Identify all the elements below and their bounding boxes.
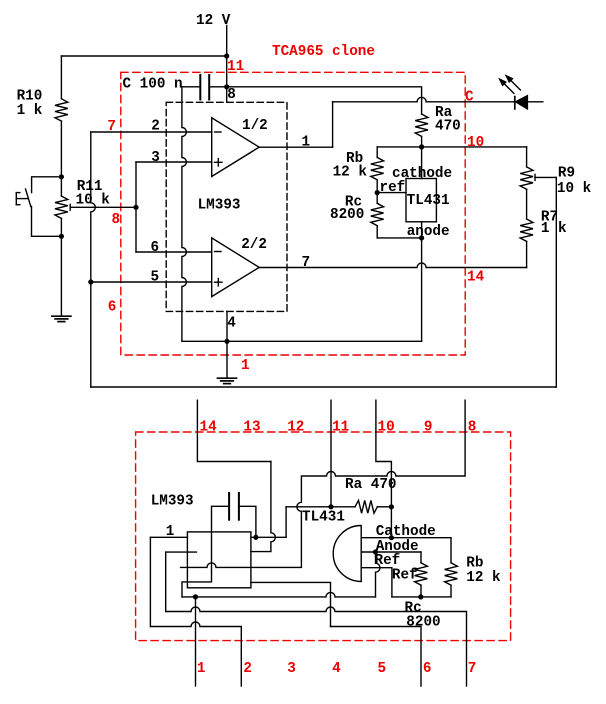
red pin label 3 bottom: [287, 661, 296, 677]
resistor R11 potentiometer: [55, 177, 110, 237]
wire Rb top lead: [376, 147, 378, 158]
wire pin1 dropper: [195, 597, 197, 686]
label pin 2: [151, 118, 160, 134]
wire Rc bottom to anode: [377, 237, 421, 239]
TL431 U2 box: [406, 179, 450, 222]
wire LM393 pin4 stub: [226, 311, 228, 378]
wire 12V vertical drop: [226, 26, 228, 57]
svg-text:7: 7: [468, 661, 477, 677]
svg-text:Ra 470: Ra 470: [345, 477, 396, 493]
svg-text:8200: 8200: [406, 614, 440, 630]
svg-text:10: 10: [378, 420, 395, 436]
red pin label C: [465, 90, 474, 106]
wire R10 top lead: [60, 56, 62, 99]
node wiper T junction: [133, 205, 138, 210]
node pin11 rail junction: [328, 504, 333, 509]
label LM393: [198, 197, 241, 213]
wire Ra right to dot: [377, 506, 391, 508]
resistor R9 potentiometer 10k: [520, 147, 591, 197]
wire bottom feedback rail: [91, 386, 557, 388]
svg-text:12 V: 12 V: [196, 13, 231, 29]
resistor Rb 12k vertical: [445, 538, 501, 597]
label pin 4: [227, 316, 236, 332]
R9 wiper arm: [535, 174, 556, 180]
svg-text:14: 14: [467, 269, 485, 285]
wire supply left dropper: [149, 537, 151, 626]
red pin label 11: [227, 59, 244, 75]
wire pin2 stub into box: [166, 551, 197, 553]
wire ref lead: [361, 568, 392, 597]
wire TL431 anode lead: [421, 222, 423, 238]
svg-text:11: 11: [227, 59, 244, 75]
svg-text:8: 8: [112, 212, 121, 228]
wire R9 wiper dropper: [555, 177, 557, 387]
wire box right stub y582: [251, 582, 331, 626]
black dashed LM393 box: [166, 102, 287, 311]
wire anode dropper to ground rail: [421, 238, 423, 341]
label Ref pin: [375, 553, 401, 569]
svg-text:ref: ref: [380, 180, 406, 196]
ground center: [218, 378, 237, 383]
wire 12V down to cap node: [226, 56, 228, 87]
svg-text:2/2: 2/2: [241, 237, 267, 253]
red pin label 5 bottom: [378, 661, 387, 677]
red pin label 8: [112, 212, 121, 228]
node Ra right junction: [389, 504, 394, 509]
node anode junction: [373, 549, 378, 554]
svg-text:14: 14: [200, 420, 218, 436]
label out 7: [302, 255, 311, 271]
op-amp U1B 2/2: [212, 237, 267, 297]
capacitor C 100n: [123, 75, 210, 100]
label ref: [380, 180, 406, 196]
wire net7 dropper with hop over wiper: [91, 132, 96, 387]
red pin label 2 bottom: [243, 661, 252, 677]
wire pin2 left dropper: [165, 552, 167, 611]
svg-text:1 k: 1 k: [17, 103, 43, 119]
wire pin10 stub and route: [376, 400, 392, 507]
wire pin11 stub: [330, 400, 332, 507]
red pin label 14 top: [200, 420, 218, 436]
wire cap right lead: [239, 506, 256, 537]
resistor R7 1k: [520, 210, 567, 242]
svg-text:1: 1: [166, 524, 175, 540]
wire switch bottom branch: [32, 207, 62, 237]
svg-text:3: 3: [151, 150, 160, 166]
svg-text:8: 8: [227, 87, 236, 103]
resistor R10: [17, 88, 68, 121]
svg-text:TL431: TL431: [302, 510, 345, 526]
wire input 5: [91, 281, 212, 283]
svg-text:anode: anode: [407, 224, 450, 240]
node ground rail pin4 junction: [224, 339, 229, 344]
red pin label 12 top: [287, 420, 304, 436]
svg-text:1: 1: [302, 135, 311, 151]
svg-text:6: 6: [423, 661, 432, 677]
label pin 8: [227, 87, 236, 103]
red pin label 7 bottom: [468, 661, 477, 677]
red pin label 11 top: [332, 420, 349, 436]
wire input 2: [91, 131, 212, 133]
LED D1: [515, 96, 543, 109]
wire cap right lead: [209, 86, 227, 88]
wire R10 bottom lead: [60, 121, 62, 177]
wire R7 bottom lead: [526, 241, 528, 267]
ground left: [52, 316, 71, 321]
R11 wiper arm: [70, 204, 136, 210]
wire Ra dot to cathode dot: [390, 507, 392, 538]
label Cathode: [376, 524, 436, 540]
red pin label 14: [467, 269, 485, 285]
wire supply wire right of box: [251, 536, 286, 538]
node wire5 junction: [88, 279, 93, 284]
wire supply corner down: [285, 507, 287, 538]
resistor Rc 8200: [330, 193, 384, 238]
svg-text:10 k: 10 k: [76, 193, 111, 209]
svg-text:4: 4: [332, 661, 341, 677]
svg-text:2: 2: [243, 661, 252, 677]
wire supply rail y507: [286, 506, 355, 508]
label TCA965 clone: [272, 44, 375, 60]
wire ground rail: [182, 340, 422, 342]
wire anode lead: [361, 551, 421, 553]
svg-text:3: 3: [287, 661, 296, 677]
label anode: [407, 224, 450, 240]
svg-text:1: 1: [197, 661, 206, 677]
wire output 1: [259, 146, 332, 148]
svg-text:5: 5: [151, 270, 160, 286]
svg-text:Ref: Ref: [392, 567, 418, 583]
svg-text:10: 10: [467, 135, 484, 151]
label Anode: [376, 539, 419, 555]
wire LED line with hop: [333, 97, 515, 102]
red pin label 4 bottom: [332, 661, 341, 677]
svg-text:C 100 n: C 100 n: [123, 76, 183, 92]
svg-text:LM393: LM393: [198, 197, 241, 213]
label pin 6: [151, 240, 160, 256]
node cap right junction: [253, 535, 258, 540]
wire gnd rail with hop: [182, 592, 376, 597]
LM393 IC box: [187, 532, 251, 588]
resistor Rb 12k: [333, 151, 384, 193]
wire ref to TL431: [377, 192, 406, 194]
red pin label 10 top: [378, 420, 395, 436]
wire pin14 stub and route: [197, 400, 271, 461]
svg-text:TCA965 clone: TCA965 clone: [272, 44, 375, 60]
wire to left ground: [60, 236, 62, 316]
svg-text:470: 470: [435, 118, 461, 134]
svg-text:7: 7: [107, 119, 116, 135]
label pin 3: [151, 150, 160, 166]
wire supply wire left of box: [150, 536, 187, 538]
wire rail A with hops to pin7: [166, 607, 467, 686]
svg-text:8200: 8200: [330, 207, 364, 223]
svg-text:R10: R10: [17, 88, 43, 104]
wire rail B left segment to pin2: [150, 622, 241, 686]
svg-text:Rb: Rb: [466, 555, 483, 571]
wire resistor bottom link: [392, 596, 451, 598]
red pin label 8 top: [468, 420, 477, 436]
wire cathode lead: [361, 537, 451, 539]
label Ref wire: [392, 567, 418, 583]
node 12V junction at y56: [224, 53, 229, 58]
pushbutton switch S1: [16, 189, 31, 207]
label pin 5: [151, 270, 160, 286]
wire cap left lead: [182, 86, 200, 88]
node Rc bottom junction: [418, 594, 423, 599]
svg-text:Cathode: Cathode: [376, 524, 436, 540]
svg-text:R9: R9: [558, 165, 575, 181]
red pin label 13 top: [243, 420, 260, 436]
svg-text:1/2: 1/2: [242, 118, 268, 134]
red pin label 6: [108, 299, 117, 315]
svg-text:11: 11: [332, 420, 349, 436]
svg-text:C: C: [465, 90, 474, 106]
red pin label 10: [467, 135, 484, 151]
LED arrows: [500, 76, 521, 94]
wire out1 riser to LED: [332, 102, 334, 147]
wire pin14 dropper with hop: [251, 462, 276, 552]
wire input 6: [136, 251, 212, 253]
wire switch top branch: [32, 177, 62, 193]
wire rail B right segment to pin6: [331, 627, 422, 687]
svg-text:9: 9: [424, 420, 433, 436]
wire gnd dropper from cap with hops: [182, 87, 187, 341]
red dashed DIP box: [136, 432, 511, 641]
svg-text:4: 4: [227, 316, 236, 332]
svg-text:LM393: LM393: [151, 494, 194, 510]
label out 1: [302, 135, 311, 151]
svg-text:6: 6: [151, 240, 160, 256]
TL431 package D shape: [302, 510, 361, 582]
red dashed TCA965 box: [121, 72, 465, 355]
svg-text:7: 7: [302, 255, 311, 271]
red pin label 1 bottom: [197, 661, 206, 677]
svg-text:1 k: 1 k: [541, 221, 567, 237]
label 1: [166, 524, 175, 540]
svg-text:1: 1: [241, 358, 250, 374]
wire LM393 pin8 stub: [226, 87, 228, 103]
wire R9-R7 link: [526, 189, 528, 219]
wire cathode rail y147: [377, 146, 526, 148]
svg-text:8: 8: [468, 420, 477, 436]
svg-text:5: 5: [378, 661, 387, 677]
wire output 7 with hop over anode line: [259, 263, 526, 268]
svg-text:6: 6: [108, 299, 117, 315]
node ref junction: [375, 190, 380, 195]
red pin label 7: [107, 119, 116, 135]
svg-text:12 k: 12 k: [333, 164, 368, 180]
node cap/12V junction pin11: [224, 84, 229, 89]
node anode junction: [419, 235, 424, 240]
node cathode junction: [389, 535, 394, 540]
svg-text:13: 13: [243, 420, 260, 436]
wire pin8 stub and route with hops: [181, 400, 466, 567]
wire input 3 riser: [135, 162, 137, 252]
capacitor C bottom: [229, 493, 239, 520]
red pin label 6 bottom: [423, 661, 432, 677]
node gnd pin1 junction: [193, 594, 198, 599]
wire cap left lead: [182, 506, 229, 597]
node R11 bottom junction: [59, 234, 64, 239]
12V supply label: [196, 13, 231, 29]
wire 12V rail to Ra: [227, 87, 422, 114]
wire TL431 cathode lead: [421, 147, 423, 179]
svg-text:TL431: TL431: [407, 193, 450, 209]
svg-text:10 k: 10 k: [557, 181, 592, 197]
resistor Ra 470 horizontal: [345, 477, 396, 513]
red pin label 9 top: [424, 420, 433, 436]
wire 12V rail to R10: [61, 55, 226, 57]
red pin label 1: [241, 358, 250, 374]
node R10/R11/switch junction: [59, 174, 64, 179]
wire input 3: [136, 161, 212, 163]
label cathode: [392, 166, 452, 182]
wire anode dropper with hop: [376, 552, 381, 597]
resistor Ra 470: [415, 105, 461, 147]
resistor Rc 8200 vertical: [405, 552, 441, 630]
svg-text:12 k: 12 k: [466, 570, 501, 586]
svg-text:12: 12: [287, 420, 304, 436]
node Ra bottom junction: [419, 144, 424, 149]
op-amp U1A 1/2: [212, 118, 268, 177]
svg-text:2: 2: [151, 118, 160, 134]
label LM393 bottom: [151, 494, 194, 510]
